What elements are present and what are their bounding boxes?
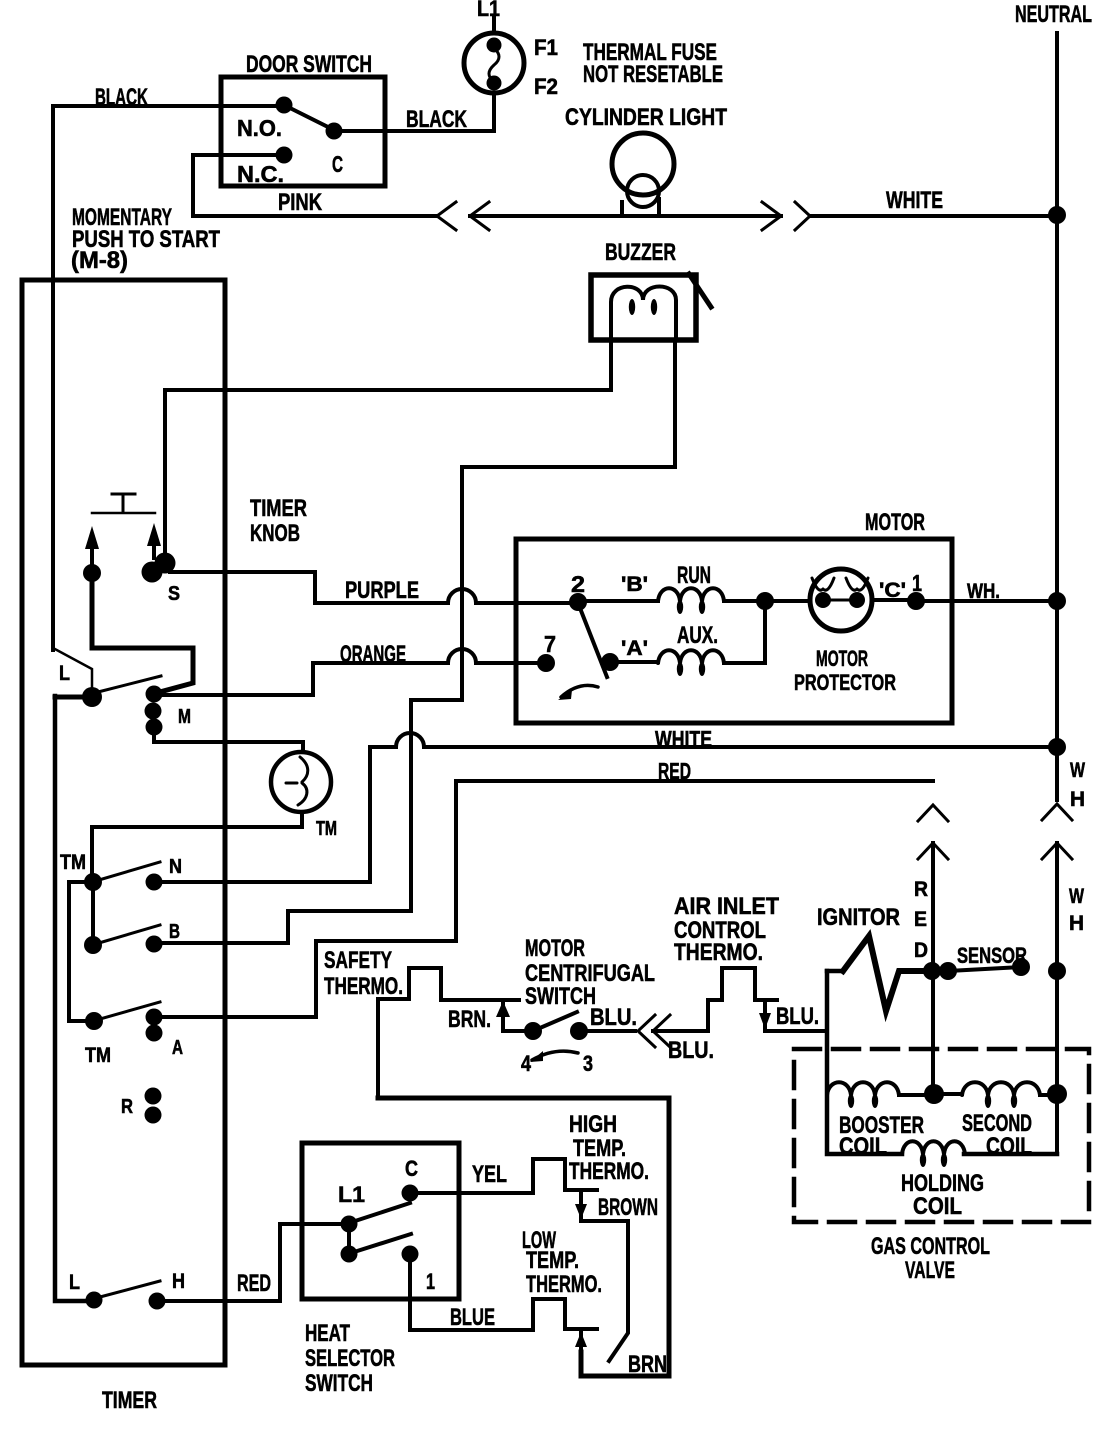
svg-text:MOTOR: MOTOR — [865, 509, 925, 536]
svg-text:L1: L1 — [477, 0, 500, 21]
svg-text:R: R — [914, 878, 928, 901]
svg-text:BLACK: BLACK — [95, 84, 148, 111]
svg-text:SWITCH: SWITCH — [305, 1370, 373, 1397]
svg-text:C: C — [405, 1156, 418, 1181]
svg-text:7: 7 — [544, 631, 556, 657]
svg-text:SELECTOR: SELECTOR — [305, 1345, 395, 1372]
svg-text:SAFETY: SAFETY — [324, 947, 392, 974]
svg-text:TM: TM — [85, 1044, 111, 1067]
svg-text:THERMO.: THERMO. — [526, 1271, 602, 1298]
svg-text:BLUE: BLUE — [450, 1304, 495, 1331]
svg-text:SWITCH: SWITCH — [525, 983, 596, 1010]
svg-text:GAS CONTROL: GAS CONTROL — [871, 1233, 990, 1260]
svg-text:H: H — [172, 1270, 185, 1293]
svg-text:H: H — [1070, 788, 1085, 811]
svg-text:N.C.: N.C. — [237, 161, 284, 187]
svg-text:RED: RED — [237, 1270, 271, 1297]
svg-text:ORANGE: ORANGE — [340, 641, 406, 668]
svg-text:WH.: WH. — [967, 580, 1000, 603]
svg-text:'A': 'A' — [621, 637, 648, 660]
svg-text:AUX.: AUX. — [677, 622, 718, 649]
svg-text:2: 2 — [571, 571, 585, 597]
svg-text:3: 3 — [583, 1051, 593, 1076]
svg-text:NEUTRAL: NEUTRAL — [1015, 1, 1092, 28]
svg-text:VALVE: VALVE — [905, 1257, 955, 1284]
svg-text:F1: F1 — [534, 35, 558, 60]
svg-text:4: 4 — [521, 1051, 532, 1076]
svg-text:(M-8): (M-8) — [71, 247, 128, 274]
svg-text:WHITE: WHITE — [886, 187, 943, 214]
svg-text:BRN.: BRN. — [628, 1351, 672, 1378]
svg-text:PROTECTOR: PROTECTOR — [794, 670, 896, 695]
svg-text:TEMP.: TEMP. — [526, 1247, 579, 1274]
svg-text:PURPLE: PURPLE — [345, 577, 419, 604]
svg-text:H: H — [1069, 912, 1084, 935]
svg-text:RED: RED — [658, 758, 691, 784]
svg-text:N: N — [169, 856, 182, 878]
svg-text:KNOB: KNOB — [250, 520, 300, 547]
svg-text:1: 1 — [912, 570, 922, 596]
svg-text:D: D — [914, 939, 928, 962]
svg-text:BLACK: BLACK — [406, 106, 467, 133]
svg-text:A: A — [172, 1037, 183, 1059]
svg-text:COIL: COIL — [986, 1133, 1032, 1160]
svg-text:'C': 'C' — [879, 579, 906, 602]
svg-text:'B': 'B' — [621, 573, 648, 596]
svg-text:CYLINDER LIGHT: CYLINDER LIGHT — [565, 104, 727, 131]
svg-text:BLU.: BLU. — [668, 1037, 714, 1064]
svg-text:YEL: YEL — [472, 1161, 507, 1188]
svg-text:TIMER: TIMER — [102, 1387, 157, 1414]
svg-text:L: L — [69, 1271, 80, 1294]
svg-text:IGNITOR: IGNITOR — [817, 904, 900, 931]
svg-text:SENSOR: SENSOR — [957, 943, 1027, 968]
svg-text:E: E — [914, 908, 927, 931]
svg-text:HEAT: HEAT — [305, 1320, 350, 1347]
svg-text:COIL: COIL — [839, 1133, 887, 1160]
svg-text:BROWN: BROWN — [598, 1194, 658, 1221]
svg-text:DOOR SWITCH: DOOR SWITCH — [246, 51, 372, 78]
svg-text:BLU.: BLU. — [776, 1003, 819, 1030]
svg-text:BLU.: BLU. — [590, 1004, 637, 1031]
svg-text:C: C — [332, 151, 343, 177]
svg-text:F2: F2 — [534, 74, 558, 99]
svg-text:WHITE: WHITE — [655, 726, 712, 752]
svg-text:HIGH: HIGH — [569, 1111, 617, 1138]
svg-text:R: R — [121, 1096, 133, 1118]
svg-text:BRN.: BRN. — [448, 1006, 491, 1033]
svg-text:W: W — [1069, 885, 1084, 908]
svg-text:BUZZER: BUZZER — [605, 239, 676, 266]
svg-text:TIMER: TIMER — [250, 495, 307, 522]
svg-text:MOTOR: MOTOR — [816, 646, 868, 671]
svg-text:L1: L1 — [338, 1182, 365, 1207]
svg-text:THERMO.: THERMO. — [324, 973, 403, 1000]
svg-text:1: 1 — [426, 1269, 435, 1294]
svg-text:RUN: RUN — [677, 562, 711, 589]
svg-text:TM: TM — [316, 818, 337, 840]
svg-text:NOT RESETABLE: NOT RESETABLE — [583, 61, 723, 88]
svg-text:M: M — [178, 706, 191, 728]
svg-text:TM: TM — [60, 851, 86, 874]
svg-text:THERMO.: THERMO. — [674, 939, 763, 966]
svg-text:W: W — [1070, 759, 1085, 782]
svg-text:PINK: PINK — [278, 189, 323, 216]
svg-text:N.O.: N.O. — [237, 115, 282, 141]
svg-text:AIR INLET: AIR INLET — [674, 893, 779, 920]
svg-text:THERMO.: THERMO. — [569, 1158, 649, 1185]
svg-text:L: L — [59, 662, 70, 685]
svg-text:COIL: COIL — [913, 1193, 962, 1220]
svg-text:S: S — [168, 583, 180, 605]
svg-text:MOTOR: MOTOR — [525, 935, 585, 962]
svg-text:B: B — [169, 921, 180, 943]
